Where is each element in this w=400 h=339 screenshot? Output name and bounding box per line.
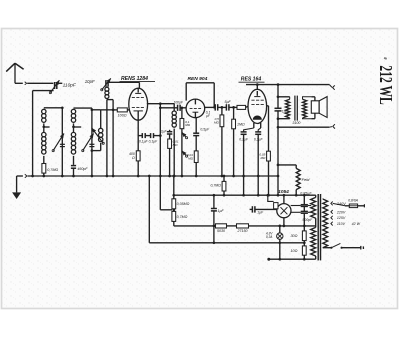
pilot lamp 4,3V 0,3A xyxy=(277,225,283,261)
capacitor 0,1uF b xyxy=(151,133,161,138)
label 0,5uF xyxy=(200,128,210,132)
resistor 0,01M a xyxy=(168,139,172,177)
label 10pF xyxy=(85,79,95,84)
svg-text:RES 164: RES 164 xyxy=(241,77,262,83)
wire bias to heater xyxy=(213,226,216,244)
label 240V xyxy=(336,202,346,206)
wire top grid line xyxy=(108,81,139,83)
wire choke down xyxy=(106,100,114,178)
wire rect anodes to caps xyxy=(291,206,312,213)
label 0,7M xyxy=(47,168,58,172)
wire lower antenna line xyxy=(33,90,54,92)
tap 220V xyxy=(331,210,333,214)
label 1M grid xyxy=(237,122,245,126)
svg-text:0,7MΩ: 0,7MΩ xyxy=(47,168,58,172)
svg-text:1MΩ: 1MΩ xyxy=(237,122,245,126)
capacitor 1uF bias xyxy=(211,195,217,227)
label 125V xyxy=(337,216,346,220)
svg-text:0,7MΩ: 0,7MΩ xyxy=(210,184,221,188)
label 0,1uF c xyxy=(239,137,249,141)
label 0,1uF anode xyxy=(206,111,211,119)
svg-text:2µF: 2µF xyxy=(160,130,168,134)
svg-text:30Ω: 30Ω xyxy=(290,234,297,238)
label 5030 xyxy=(217,229,225,233)
wire chassis bus xyxy=(17,174,278,178)
capacitor 2uF xyxy=(167,130,172,139)
label 0,7M divider xyxy=(177,215,188,219)
svg-text:460pF: 460pF xyxy=(77,167,88,171)
coil L2a xyxy=(71,109,75,122)
capacitor 1uF tone xyxy=(275,106,282,197)
tube RES164 V3 xyxy=(248,85,267,128)
coil L1b xyxy=(42,132,46,154)
wire rect filament left xyxy=(250,206,277,212)
output transformer primary xyxy=(278,97,290,119)
label Feld xyxy=(302,177,311,182)
capacitor 5uF xyxy=(226,104,237,110)
coil grid choke xyxy=(105,87,109,98)
wire filament bottom xyxy=(267,258,315,261)
node coil2 tap xyxy=(72,123,81,132)
resistor 0,05M screen xyxy=(267,151,271,196)
label 110pF xyxy=(63,82,77,88)
resistor 0,7M coupling xyxy=(222,175,226,197)
svg-text:100pF: 100pF xyxy=(174,100,184,104)
power transformer primary xyxy=(323,199,328,248)
svg-text:MΩ: MΩ xyxy=(185,123,191,127)
svg-text:0,85µF: 0,85µF xyxy=(300,191,312,195)
trimmer capacitor 10pF xyxy=(101,78,111,91)
svg-text:110V: 110V xyxy=(337,222,346,226)
node bus junctions xyxy=(31,175,34,178)
resistor 5030 xyxy=(216,224,227,228)
capacitor 0,1uF a xyxy=(138,133,150,138)
tube REN904 V2 xyxy=(186,99,205,118)
svg-text:0,1µF: 0,1µF xyxy=(149,139,158,143)
label 0,1M xyxy=(185,120,191,127)
wire grid2 xyxy=(159,106,178,109)
svg-text:0,1µF: 0,1µF xyxy=(139,139,148,143)
wire to bus xyxy=(42,173,45,177)
label 3100 xyxy=(292,121,300,125)
label 1uF bias xyxy=(218,209,225,213)
svg-text:0,3A: 0,3A xyxy=(266,235,273,239)
label 0,85uF xyxy=(300,191,312,195)
label 1uF tone xyxy=(282,109,289,113)
capacitor 0,85uF xyxy=(301,194,308,227)
wire divider feed xyxy=(172,175,175,199)
label 1054 xyxy=(278,189,289,195)
switch contact b xyxy=(182,151,188,157)
switch contact a xyxy=(181,129,188,178)
svg-text:0,05MΩ: 0,05MΩ xyxy=(177,202,190,206)
svg-text:Ω: Ω xyxy=(132,156,135,160)
label 30 ohm xyxy=(290,234,297,238)
mains switch xyxy=(323,243,361,248)
label 100pF xyxy=(174,100,184,104)
label 0,5M xyxy=(214,117,220,125)
label 0,7M coupling xyxy=(210,184,221,188)
svg-text:10pF: 10pF xyxy=(85,79,95,84)
coil anode choke xyxy=(172,104,176,178)
wire trimmer to tank xyxy=(58,82,63,84)
svg-text:5030: 5030 xyxy=(217,229,225,233)
tap 110V xyxy=(331,222,333,226)
tube RENS1284 V1 xyxy=(129,82,148,120)
wire sub line xyxy=(172,194,315,197)
svg-text:220V: 220V xyxy=(336,210,346,214)
capacitor 460pF padding xyxy=(71,156,76,177)
svg-text:125V: 125V xyxy=(337,216,346,220)
label RES 164 xyxy=(239,77,265,83)
svg-text:0,8/6A: 0,8/6A xyxy=(348,198,359,202)
svg-text:27150: 27150 xyxy=(237,229,248,233)
output transformer core xyxy=(295,96,297,121)
resistor 100 ohm xyxy=(113,108,130,112)
resistor 0,5M xyxy=(220,107,224,177)
rectifier tube 1054 xyxy=(266,194,291,227)
wire tank1 top xyxy=(44,106,64,109)
resistor grid3 0,2M xyxy=(237,105,248,109)
svg-text:10Ω: 10Ω xyxy=(290,249,297,253)
svg-text:Feld: Feld xyxy=(302,177,311,182)
svg-text:0,1µF: 0,1µF xyxy=(239,137,249,141)
label 0,01M b xyxy=(187,153,194,161)
label 0,8/6A xyxy=(348,198,359,202)
svg-text:3100: 3100 xyxy=(292,121,300,125)
terminal speaker- xyxy=(329,124,335,128)
wire tube1 anode xyxy=(147,102,174,105)
wire left bus down xyxy=(32,91,34,176)
power transformer core xyxy=(318,194,320,260)
svg-text:MΩ: MΩ xyxy=(173,143,179,147)
label 500pF xyxy=(302,218,313,222)
wire tube2 anode xyxy=(205,106,216,108)
svg-text:5µF: 5µF xyxy=(224,100,231,104)
svg-text:110pF: 110pF xyxy=(63,82,77,88)
resistor 30 ohm xyxy=(302,226,306,243)
resistor 400 ohm cathode xyxy=(136,151,140,178)
label 100 ohm xyxy=(118,114,127,118)
wire coil1 bottom xyxy=(43,156,45,164)
svg-text:RENS 1284: RENS 1284 xyxy=(121,76,148,82)
label 0,05M divider xyxy=(177,202,190,206)
wire anode line tube3 xyxy=(246,83,329,86)
fuse 0,8/6A xyxy=(345,204,364,208)
power transformer LT winding xyxy=(311,226,316,259)
wire grid branch xyxy=(101,100,115,178)
svg-text:MΩ: MΩ xyxy=(260,156,266,160)
capacitor 0,1uF c xyxy=(241,128,254,197)
label 0,1uF d xyxy=(254,137,264,141)
resistor 0,01M b xyxy=(194,151,198,177)
resistor field Feld xyxy=(278,165,300,197)
antenna xyxy=(6,63,23,83)
resistor 1M grid xyxy=(232,106,236,177)
label 5uF xyxy=(224,100,231,104)
label 110V xyxy=(337,222,346,226)
label 0,1uF 0,1uF xyxy=(139,139,158,143)
wire plate drop xyxy=(277,85,280,106)
svg-text:MΩ: MΩ xyxy=(188,156,194,160)
wire screen-AVC drop xyxy=(159,104,162,178)
svg-text:42 W: 42 W xyxy=(352,222,361,226)
svg-text:0,5µF: 0,5µF xyxy=(200,128,210,132)
tap 125V xyxy=(331,216,333,220)
power transformer HT winding xyxy=(311,195,316,226)
capacitor 0,1uF d xyxy=(255,128,261,197)
wire tube2 cathode xyxy=(195,118,197,133)
label 1uF rect xyxy=(257,211,264,215)
resistor 0,7M ohm antenna xyxy=(42,164,46,174)
variable capacitor gang2 xyxy=(82,108,95,177)
wire heater xyxy=(148,175,306,245)
label 460pF xyxy=(77,167,88,171)
trimmer capacitor 110pF xyxy=(49,80,59,94)
capacitor 0,1uF anode xyxy=(215,104,226,110)
resistor 0,7M divider xyxy=(172,209,176,226)
label 0,01M a xyxy=(173,139,179,146)
label 27150 xyxy=(237,229,248,233)
label 220V xyxy=(336,210,346,214)
wire tube1 cathode xyxy=(137,120,139,151)
speaker xyxy=(311,97,327,119)
wire top line tube2 xyxy=(186,83,215,109)
label RENS 1284 xyxy=(120,76,156,82)
svg-text:100Ω: 100Ω xyxy=(118,114,127,118)
svg-text:0,1µF: 0,1µF xyxy=(254,137,264,141)
resistor 0,05M divider xyxy=(172,199,176,211)
wire antenna lead-in with plug xyxy=(15,82,53,85)
svg-text:240V: 240V xyxy=(336,202,346,206)
svg-text:1µF: 1µF xyxy=(218,209,225,213)
ground xyxy=(12,176,21,199)
coil L3 adjustable xyxy=(92,128,104,144)
label 0,05M xyxy=(259,153,266,161)
terminal mains xyxy=(361,246,364,250)
capacitor 0,5uF det xyxy=(193,133,199,151)
svg-text:MΩ: MΩ xyxy=(214,121,220,125)
node coil1 tap xyxy=(42,123,49,132)
resistor 27150 xyxy=(237,224,249,228)
label REN 904 xyxy=(188,76,208,82)
capacitor 100pF xyxy=(178,105,187,111)
label 2uF xyxy=(160,130,168,134)
wire speaker return xyxy=(278,126,329,128)
wire screen tube3 xyxy=(267,106,269,151)
resistor 10 ohm xyxy=(302,243,306,261)
label 4,3V 0,3A xyxy=(266,231,273,239)
label 10 ohm xyxy=(290,249,297,253)
terminal speaker+ xyxy=(329,85,334,90)
coil L1a xyxy=(42,109,46,122)
svg-text:212 WL: 212 WL xyxy=(375,65,394,104)
title 212 WL xyxy=(375,57,394,105)
wire coil3 top xyxy=(91,108,101,128)
wire bias line xyxy=(174,225,316,227)
variable capacitor gang1 xyxy=(52,108,65,178)
svg-text:500pF: 500pF xyxy=(302,218,313,222)
wire coil3 bottom xyxy=(91,143,101,152)
svg-text:REN 904: REN 904 xyxy=(188,76,208,82)
label 42W xyxy=(352,222,361,226)
tap 240V xyxy=(331,202,345,206)
svg-text:0,7MΩ: 0,7MΩ xyxy=(177,215,188,219)
wire avc tap xyxy=(160,176,172,210)
coil L2b xyxy=(71,132,75,154)
resistor grid leak 0,1M xyxy=(180,106,184,128)
svg-text:1µF: 1µF xyxy=(257,211,264,215)
output transformer secondary xyxy=(303,97,312,119)
wire tank2 top xyxy=(74,107,92,109)
label 400 ohm xyxy=(129,152,135,160)
